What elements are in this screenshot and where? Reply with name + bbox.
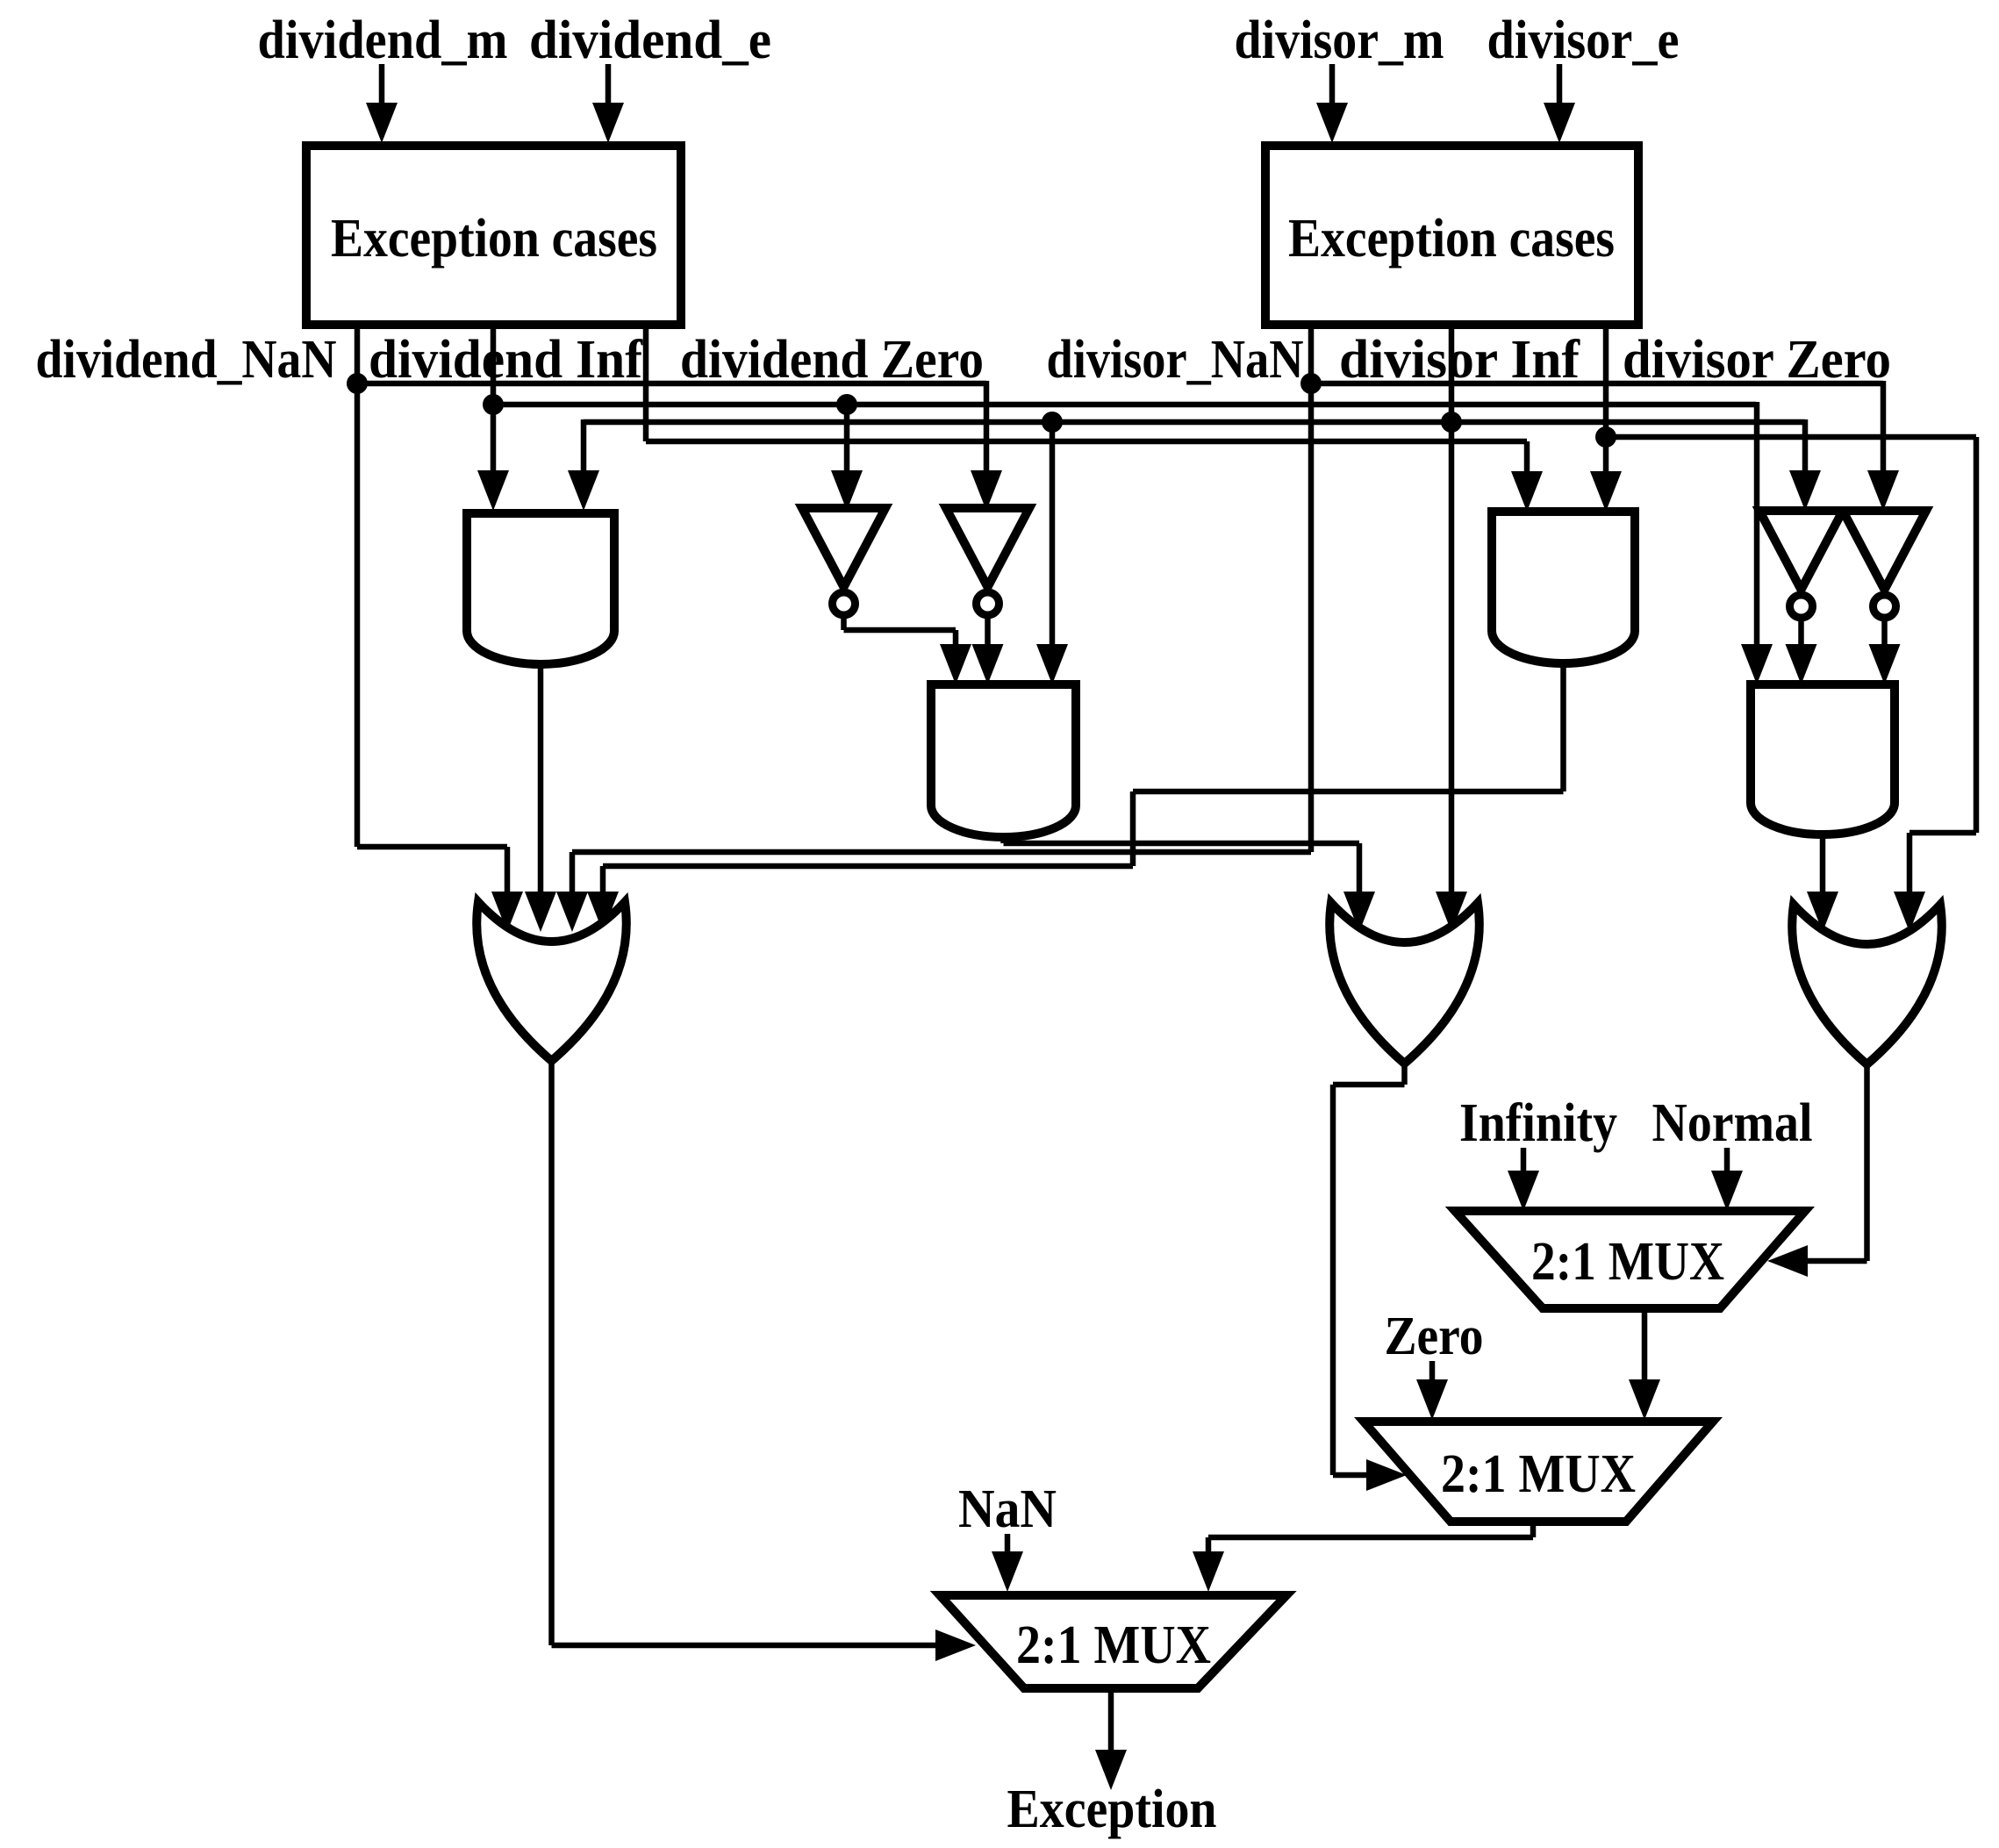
wire Normal into MUX M1: [1711, 1148, 1743, 1211]
wire divisor_NaN bus: [1311, 381, 1883, 387]
svg-text:2:1 MUX: 2:1 MUX: [1531, 1232, 1724, 1292]
AND gate U5 (dividend Inf & divisor Inf): [467, 513, 614, 664]
mux M1 2:1 MUX: [1455, 1211, 1805, 1308]
svg-text:Zero: Zero: [1385, 1307, 1484, 1366]
wire Zero into MUX M2: [1416, 1361, 1448, 1420]
wire dividend_e into left box: [592, 64, 624, 143]
AND gate U8 (right): [1751, 684, 1895, 834]
net label dividend_Zero: [680, 330, 984, 390]
input label dividend_e: [529, 11, 771, 70]
junction dividend_Inf to inverter U1: [836, 394, 857, 415]
net label divisor_NaN: [1047, 330, 1304, 390]
wire MUX M1 output to MUX M2: [1629, 1308, 1660, 1420]
wire dividend_Inf to inverter U1: [831, 405, 863, 511]
wire divisor_Zero right branch: [1606, 437, 1976, 932]
input label Zero: [1385, 1307, 1484, 1366]
wire OR U10 output to MUX M2 select: [1333, 1064, 1407, 1491]
wire divisor_NaN stub from box: [1308, 326, 1315, 383]
svg-text:Infinity: Infinity: [1459, 1093, 1617, 1153]
wire divisor_Inf bus: [584, 419, 1805, 426]
wire inverter U1 output to AND U7 pin1: [844, 614, 972, 684]
svg-text:dividend_NaN: dividend_NaN: [36, 330, 337, 390]
wire dividend_NaN down to OR U9: [357, 383, 523, 932]
junction divisor_NaN: [1300, 373, 1322, 394]
svg-text:dividend_e: dividend_e: [529, 11, 771, 70]
svg-text:2:1 MUX: 2:1 MUX: [1016, 1615, 1211, 1675]
wire inverter U3 output to AND U8 pin2: [1786, 617, 1817, 684]
wire AND U6b output to OR U9 pin4: [587, 662, 1564, 932]
wire AND U8 output to OR U11 pin1: [1807, 832, 1838, 932]
input label divisor_e: [1487, 11, 1680, 70]
wire AND U7 output to OR U10 pin1: [1004, 834, 1376, 932]
junction dividend_NaN: [347, 373, 368, 394]
svg-text:divisor_NaN: divisor_NaN: [1047, 330, 1304, 390]
inverter U4 (not divisor_NaN): [1843, 511, 1926, 618]
block Exception cases (divisor): [1265, 146, 1638, 325]
wire dividend_NaN bus: [357, 381, 986, 387]
svg-text:Exception cases: Exception cases: [331, 209, 657, 269]
svg-text:Exception: Exception: [1007, 1780, 1217, 1839]
wire divisor_Inf to inverter U3: [1789, 419, 1821, 511]
OR gate U11 (zero cases): [1792, 905, 1942, 1064]
wire OR U11 output to MUX M1 select: [1767, 1064, 1867, 1277]
junction divisor_Inf: [1441, 412, 1462, 433]
input label Infinity: [1459, 1093, 1617, 1153]
wire inverter U2 output to AND U7 pin2: [972, 614, 1004, 684]
wire OR U9 output to MUX M3 select: [552, 1061, 977, 1661]
wire NaN into MUX M3: [992, 1534, 1023, 1592]
junction dividend_Inf: [483, 394, 504, 415]
svg-text:dividend_m: dividend_m: [258, 11, 508, 70]
wire divisor_m into right box: [1316, 64, 1348, 143]
wire divisor_Inf to AND U5 pin2: [568, 419, 599, 511]
svg-text:divisor_m: divisor_m: [1235, 11, 1444, 70]
svg-text:NaN: NaN: [958, 1479, 1057, 1539]
input label NaN: [958, 1479, 1057, 1539]
net label divisor_Zero: [1623, 330, 1891, 390]
wire divisor_Zero to AND U6b pin2: [1590, 437, 1622, 512]
wire MUX M2 output to MUX M3: [1193, 1522, 1533, 1592]
AND gate U7 (middle): [931, 684, 1076, 837]
wire inverter U4 output to AND U8 pin3: [1869, 617, 1901, 684]
wire dividend_Inf to AND U8 pin1: [1741, 402, 1773, 684]
net label divisor_Inf: [1339, 330, 1580, 390]
wire divisor_Zero stub from box: [1603, 326, 1609, 437]
inverter U1 (not dividend_Inf): [802, 508, 885, 615]
junction divisor_Zero: [1595, 426, 1616, 448]
svg-text:2:1 MUX: 2:1 MUX: [1441, 1444, 1636, 1504]
wire Infinity into MUX M1: [1508, 1148, 1539, 1211]
wire dividend_Zero from box to AND U6b: [646, 326, 1543, 512]
block Exception cases (dividend): [306, 146, 681, 325]
junction divisor_Inf to AND U7: [1042, 412, 1063, 433]
input label divisor_m: [1235, 11, 1444, 70]
wire divisor_e into right box: [1544, 64, 1575, 143]
wire dividend_Inf bus: [493, 402, 1756, 408]
AND gate U6b (dividend Zero & divisor Zero): [1492, 512, 1635, 663]
net label dividend_Inf: [369, 330, 643, 390]
wire divisor_Inf to AND U7 pin3: [1036, 422, 1068, 684]
net label dividend_NaN: [36, 330, 337, 390]
inverter U3 (not divisor_Inf): [1759, 511, 1843, 618]
svg-text:divisor_e: divisor_e: [1487, 11, 1680, 70]
svg-text:Normal: Normal: [1652, 1093, 1813, 1153]
svg-text:Exception cases: Exception cases: [1288, 209, 1615, 269]
output label Exception: [1007, 1780, 1217, 1839]
wire dividend_NaN stub from box: [355, 326, 361, 383]
wire divisor_NaN down to OR U9 pin3: [556, 383, 1311, 932]
wire Exception output: [1095, 1688, 1127, 1790]
inverter U2 (not dividend_NaN): [946, 508, 1029, 615]
input label dividend_m: [258, 11, 508, 70]
mux M2 2:1 MUX: [1364, 1422, 1713, 1522]
OR gate U9 (NaN cases): [476, 902, 627, 1061]
wire dividend_NaN to inverter U6: [971, 381, 1002, 511]
wire divisor_Inf stub from box: [1449, 326, 1455, 422]
OR gate U10 (infinity cases): [1329, 903, 1480, 1064]
input label Normal: [1652, 1093, 1813, 1153]
wire divisor_NaN to inverter U4: [1867, 381, 1899, 511]
wire dividend_m into left box: [366, 64, 398, 143]
wire dividend_Inf stub from box: [491, 326, 497, 405]
wire dividend_Inf to AND U5 pin1: [477, 405, 509, 511]
mux M3 2:1 MUX: [940, 1595, 1286, 1688]
wire divisor_Inf down to OR U10 pin2: [1436, 422, 1467, 932]
wire AND U5 output to OR U9 pin2: [525, 664, 556, 932]
